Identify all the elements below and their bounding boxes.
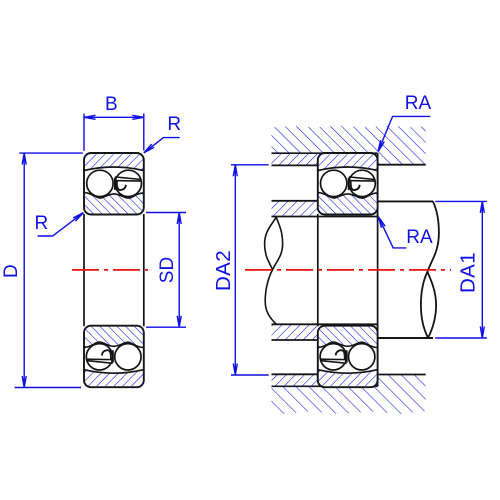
abutment strip lower shaft side bbox=[272, 324, 318, 340]
svg-text:DA2: DA2 bbox=[212, 250, 235, 291]
bearing (left view) bbox=[84, 153, 144, 387]
dimension D bbox=[15, 153, 83, 387]
shaft break right bbox=[421, 201, 439, 338]
svg-text:SD: SD bbox=[157, 257, 178, 283]
abutment strip lower housing side bbox=[272, 374, 318, 386]
svg-text:R: R bbox=[35, 213, 49, 234]
svg-text:DA1: DA1 bbox=[457, 252, 480, 293]
svg-text:RA: RA bbox=[405, 93, 432, 114]
centerline red bbox=[72, 269, 451, 271]
svg-text:RA: RA bbox=[406, 227, 433, 248]
shaft shoulder right bottom line bbox=[378, 337, 433, 339]
shaft shoulder right top line bbox=[378, 200, 433, 202]
abutment strip upper shaft side bbox=[272, 201, 318, 217]
leader RA right bbox=[378, 217, 406, 248]
dimension B bbox=[84, 114, 144, 151]
shaft break left bbox=[265, 217, 283, 324]
svg-text:B: B bbox=[105, 94, 118, 115]
housing lower shoulder line bbox=[378, 375, 426, 387]
housing lower bore line bbox=[272, 385, 378, 387]
shaft shoulder faces bbox=[377, 201, 379, 338]
dimension SD bbox=[146, 213, 186, 328]
leader R top bbox=[144, 138, 180, 153]
svg-text:D: D bbox=[1, 264, 22, 278]
dimension DA2 bbox=[231, 165, 269, 375]
leader R left bbox=[38, 213, 84, 236]
shaft lower surface line bbox=[272, 323, 378, 325]
abutment strip upper housing side bbox=[272, 153, 318, 165]
svg-text:R: R bbox=[167, 114, 181, 135]
bearing (right view) bbox=[318, 153, 378, 387]
leader RA top bbox=[378, 116, 430, 151]
dimension DA1 bbox=[435, 201, 487, 338]
housing lower block hatch bbox=[272, 375, 426, 415]
housing upper shoulder line bbox=[378, 153, 426, 165]
shaft upper surface line bbox=[272, 216, 378, 218]
housing upper bore line bbox=[272, 152, 378, 154]
housing upper block hatch bbox=[272, 126, 426, 165]
